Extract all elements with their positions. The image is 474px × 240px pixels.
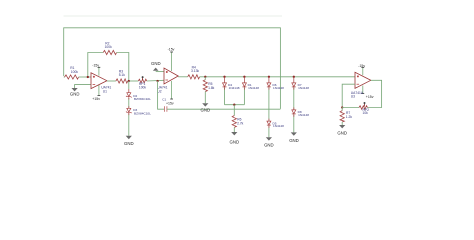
wire: D6 to D5 — [268, 87, 270, 121]
ground (U1 -in) — [72, 88, 78, 91]
resistor R2 — [103, 50, 116, 54]
wire: R1 to U1 +in — [79, 76, 91, 78]
svg-text:1N4148: 1N4148 — [298, 86, 309, 90]
svg-text:U1: U1 — [103, 90, 107, 94]
zener D2 — [128, 81, 130, 89]
wire: R5 to ground — [204, 92, 206, 104]
svg-text:1N4148: 1N4148 — [229, 86, 240, 90]
wire: U1 out to R3 — [107, 80, 116, 82]
wire: D1 lead — [243, 87, 245, 89]
zener D3 — [128, 98, 130, 108]
diode D5 — [267, 121, 271, 125]
wire: R1 left stub — [64, 76, 65, 78]
svg-text:1N4148: 1N4148 — [298, 113, 309, 117]
ground (zener chain) — [126, 136, 132, 139]
svg-text:GND: GND — [201, 108, 211, 113]
svg-text:-15v: -15v — [358, 64, 365, 68]
svg-text:-15v: -15v — [168, 47, 175, 51]
resistor R1 — [65, 75, 79, 79]
svg-text:1N4148: 1N4148 — [273, 124, 284, 128]
diode D8 — [292, 110, 296, 114]
resistor R5 — [204, 77, 206, 80]
ground (R6) — [231, 132, 237, 135]
op-amp U2 — [157, 47, 178, 105]
resistor R3 — [116, 79, 128, 83]
ground (R7) — [339, 125, 345, 128]
resistor R6 — [232, 116, 236, 128]
wire: R2 feedback loop — [88, 53, 103, 78]
ground (R5) — [202, 103, 208, 106]
wire: D7 to D8 — [293, 87, 295, 109]
ground (U2 +in, flipped up) — [151, 61, 164, 72]
wire: RP1 to U2 -in — [147, 79, 164, 82]
svg-text:100k: 100k — [71, 70, 79, 74]
svg-text:1N4148: 1N4148 — [273, 86, 284, 90]
svg-text:+15v: +15v — [92, 97, 100, 101]
ground (D5) — [266, 137, 272, 140]
node: D6 top — [268, 76, 270, 78]
potentiometer RP2 — [359, 106, 368, 110]
svg-text:GND: GND — [70, 91, 80, 96]
svg-text:BZX84C10L: BZX84C10L — [134, 97, 151, 101]
wire: D8 to ground — [293, 114, 295, 132]
svg-text:2.7k: 2.7k — [237, 121, 244, 125]
wire: D7 lead — [293, 87, 295, 89]
ground (D8) — [291, 132, 297, 135]
wire: D6 lead — [268, 87, 270, 89]
diode D1 — [243, 77, 245, 83]
node: R6 tap — [233, 104, 235, 106]
wire: D8 top lead — [293, 107, 295, 110]
diode D7 — [293, 77, 295, 83]
wire: D4 lead — [224, 87, 226, 89]
svg-text:GND: GND — [230, 139, 240, 144]
svg-text:-15v: -15v — [92, 63, 99, 67]
svg-text:1.2k: 1.2k — [346, 115, 353, 119]
wire: faint upper line — [64, 15, 283, 17]
svg-text:100k: 100k — [105, 45, 113, 49]
wire: D8 bottom lead — [293, 114, 295, 116]
wire: U2 out to R4 — [178, 76, 188, 78]
svg-text:GND: GND — [337, 130, 347, 135]
wire: R7 to ground — [341, 122, 343, 125]
svg-text:+15v: +15v — [366, 95, 374, 99]
node: D7 top — [293, 76, 295, 78]
node: R5 junction — [204, 76, 206, 78]
wire: D5 bottom lead — [268, 126, 270, 128]
wire: D4/D1 bottom connector — [225, 104, 245, 106]
diode D4 — [224, 77, 226, 83]
node: D1 top — [243, 76, 245, 78]
wire: D3 to ground — [128, 113, 130, 136]
wire: D5 to ground — [268, 125, 270, 137]
wire: D2 lead — [128, 97, 130, 99]
op-amp U3 — [351, 64, 374, 99]
svg-text:BZX84C10L: BZX84C10L — [134, 112, 151, 116]
svg-text:3.13k: 3.13k — [191, 69, 199, 73]
node: C1 branch — [156, 80, 158, 82]
wire: RP2 to U3 output feedback — [368, 80, 382, 107]
svg-text:1.8k: 1.8k — [208, 86, 215, 90]
wire: U1 -in to GND — [75, 85, 91, 89]
wire: D3 bottom lead — [128, 113, 130, 115]
diode D6 — [268, 77, 270, 83]
resistor R7 — [341, 108, 343, 111]
svg-text:C1: C1 — [162, 98, 166, 102]
svg-text:GND: GND — [151, 61, 161, 66]
wire: C1 branch down and lower bus — [158, 81, 165, 109]
svg-text:+15v: +15v — [166, 102, 174, 106]
node: R7/RP2 junction — [341, 106, 343, 108]
wire: D3 top lead — [128, 106, 130, 108]
capacitor C1 — [163, 106, 165, 112]
wire: U3 -in loop — [342, 84, 355, 107]
svg-text:5.1k: 5.1k — [119, 73, 126, 77]
resistor R4 — [188, 75, 200, 79]
svg-text:1N4148: 1N4148 — [248, 86, 259, 90]
wire: top feedback frame from R1 node to lower bus — [64, 28, 281, 109]
svg-text:GND: GND — [264, 143, 274, 148]
op-amp U1 — [91, 63, 111, 101]
node: R2/U1 +in junction — [87, 76, 89, 78]
svg-text:10k: 10k — [363, 111, 369, 115]
potentiometer RP1 — [138, 79, 147, 83]
wire: R6 to ground — [233, 127, 235, 132]
wire: D5 top lead — [268, 119, 270, 122]
node: D4 top — [223, 76, 225, 78]
svg-text:U3: U3 — [351, 94, 355, 98]
wire: diode bus to U3 +in — [200, 76, 355, 78]
wire: junction to RP2 — [342, 107, 359, 109]
svg-text:U2: U2 — [157, 89, 161, 93]
node: R3/R2/zener junction — [128, 80, 139, 82]
wire: lower bus to frame — [167, 108, 280, 110]
svg-text:100k: 100k — [139, 86, 147, 90]
svg-text:GND: GND — [289, 138, 299, 143]
svg-text:GND: GND — [124, 141, 134, 146]
wire: tap to R6 (crosses bus) — [233, 105, 235, 116]
